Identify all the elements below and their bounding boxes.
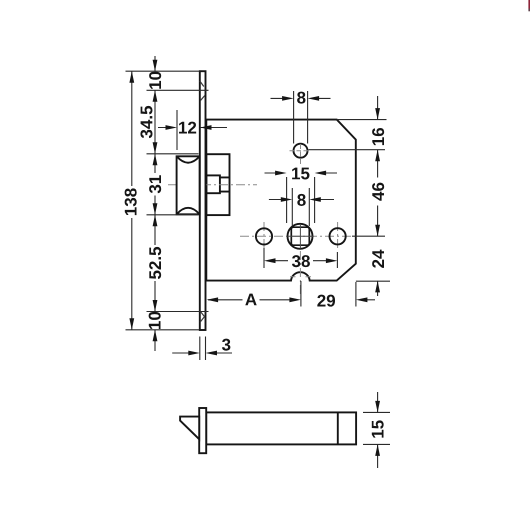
red logo edge fragment top-right corner <box>528 0 530 9</box>
top hole <box>294 144 308 158</box>
dimension text 3 <box>222 339 230 351</box>
spindle follower circle <box>288 224 313 249</box>
spindle centre cross <box>288 224 314 249</box>
centre line left hole <box>263 222 265 251</box>
dimension text 8 top <box>297 92 305 104</box>
dimension 15 ext lines <box>287 177 315 223</box>
spindle square <box>291 227 309 245</box>
right hole <box>330 228 346 244</box>
left chain dimension line <box>154 56 156 351</box>
side view lock case bar <box>206 412 356 444</box>
lock case outline <box>206 120 355 281</box>
dimension text 29 <box>317 295 335 307</box>
dimension 8 square line <box>269 199 334 201</box>
dimension 15 side ext lines <box>363 412 390 444</box>
dimension text 12 <box>179 122 196 134</box>
dimension 12 line <box>158 127 227 129</box>
dimension 138 line <box>131 71 133 330</box>
centre line latch <box>168 184 257 186</box>
dimension 8 square ext lines <box>292 188 309 226</box>
right chain ext line top hole <box>309 149 386 151</box>
dimension text 15 side view <box>372 420 384 437</box>
dimension text 15 <box>292 168 309 180</box>
extension line faceplate bottom <box>126 329 200 331</box>
dimension text A backset <box>245 294 256 306</box>
centre line hole row <box>240 235 352 237</box>
dimension text 31 <box>149 175 161 193</box>
dimension 12 extension line <box>176 110 178 150</box>
screw slot top <box>200 81 205 101</box>
dimension 3 line <box>172 352 232 354</box>
latch bolt head front view <box>177 156 200 214</box>
dimension text 138 <box>125 188 137 215</box>
dimension A line <box>208 299 290 301</box>
centre cross top hole <box>290 150 311 152</box>
left chain arrows <box>153 60 158 72</box>
side view faceplate section <box>199 408 206 453</box>
latch housing block <box>206 154 229 215</box>
dimension A 29 ext lines <box>301 281 356 307</box>
centre mark notch <box>290 276 311 278</box>
extension line y214.8 <box>147 214 199 216</box>
dimension text 46 <box>372 183 384 201</box>
faceplate front view <box>200 71 206 330</box>
screw slot bottom <box>200 311 205 322</box>
right chain ext line spindle <box>352 235 385 237</box>
dimension 29 tail <box>364 299 375 301</box>
side view cap line <box>337 412 339 444</box>
dimension text 52.5 <box>149 247 161 279</box>
dimension text 8 square <box>297 194 305 206</box>
bolt tail step <box>206 175 220 193</box>
dimension 15 side line <box>377 392 379 468</box>
right chain dimension line <box>377 96 379 296</box>
right chain ext line case bottom <box>356 280 390 282</box>
dimension 38 line <box>275 260 327 262</box>
dimension text 38 <box>292 255 310 267</box>
extension line y90 <box>147 89 209 91</box>
centre line right hole <box>337 222 339 251</box>
dimension text 10 top <box>149 72 161 89</box>
dimension 8 top line <box>271 97 331 99</box>
right chain ext line case top <box>337 119 387 121</box>
dimension 3 ext lines <box>200 337 206 361</box>
dimension text 16 <box>372 128 384 145</box>
dimension 15 line <box>265 172 338 174</box>
centre line spindle vertical <box>299 251 301 296</box>
dimension text 10 bottom <box>149 312 161 329</box>
dimension text 24 <box>372 250 384 268</box>
dimension text 34.5 <box>140 106 152 138</box>
left hole <box>256 228 272 244</box>
side view latch bolt bevel <box>180 417 199 440</box>
bolt tail neck <box>220 177 230 191</box>
extension line y153.6 <box>147 153 199 155</box>
dimension 38 ext lines <box>264 248 337 268</box>
extension line y311.5 <box>147 311 209 313</box>
dimension 8 top ext lines <box>294 91 308 144</box>
extension line faceplate top <box>126 70 200 72</box>
